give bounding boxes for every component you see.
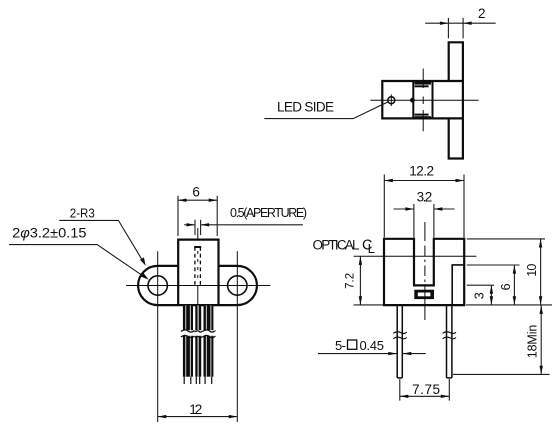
right mounting hole <box>228 276 247 295</box>
flange (mounting tab) outline <box>449 42 463 158</box>
LED SIDE leader line <box>264 102 388 119</box>
aperture slit start blob <box>194 246 201 248</box>
bottom extension line left <box>354 304 383 306</box>
pin highlights (white stripes) <box>185 305 211 376</box>
center pin bar <box>195 305 201 376</box>
2-phi3.2 leader <box>9 245 145 278</box>
svg-text:12: 12 <box>189 402 202 417</box>
svg-text:2: 2 <box>478 6 486 21</box>
svg-text:OPTICAL: OPTICAL <box>313 238 360 253</box>
right pin break marks <box>443 332 456 339</box>
svg-text:3: 3 <box>473 292 487 299</box>
body with mounting ears (stadium outline) <box>138 266 257 305</box>
svg-text:5-: 5- <box>335 338 346 353</box>
dimension 18Min <box>540 305 542 374</box>
dimension 6 <box>513 265 515 305</box>
top aperture hatch <box>415 82 431 87</box>
optical axis line <box>354 255 477 257</box>
horizontal centerline <box>371 99 479 101</box>
hole vertical tick <box>390 94 392 106</box>
break marks right pin <box>203 330 216 338</box>
dimension 10 <box>540 239 542 305</box>
svg-text:2-R3: 2-R3 <box>70 205 95 220</box>
dimension 3 <box>490 285 492 304</box>
left pin bar <box>183 305 193 376</box>
break band <box>181 330 216 336</box>
break marks center pin <box>195 331 203 338</box>
aperture block in slot <box>414 290 434 299</box>
dimension 0.5 aperture <box>184 220 303 235</box>
dimension 6 (tower width) <box>178 196 217 236</box>
svg-text:LED SIDE: LED SIDE <box>277 99 334 114</box>
dimension 5-sq0.45 leader arrows <box>318 353 426 355</box>
dimension 3.2 (slot width) <box>394 204 455 238</box>
dimension 12.2 <box>384 175 464 238</box>
svg-text:0.5(APERTURE): 0.5(APERTURE) <box>230 206 307 220</box>
2-R3 leader <box>59 220 143 262</box>
center block (sensing head) <box>413 81 432 118</box>
dimension 7.2 <box>359 256 361 304</box>
svg-text:L: L <box>368 241 375 256</box>
left pin <box>397 305 402 378</box>
pin tips <box>184 377 212 384</box>
step ledge <box>452 265 464 305</box>
svg-text:6: 6 <box>192 185 200 200</box>
index hole circle <box>388 97 395 104</box>
dimension 2 (flange thickness) <box>425 18 496 39</box>
svg-text:0.45: 0.45 <box>360 338 385 353</box>
aperture slit hidden lines <box>194 247 196 285</box>
left hole centerline / ext line <box>157 251 159 422</box>
dimension 12 <box>158 416 238 418</box>
svg-text:18Min: 18Min <box>526 325 540 359</box>
right extension lines <box>453 239 552 375</box>
front pins group <box>181 305 216 384</box>
LED chip dot <box>410 98 415 103</box>
svg-text:10: 10 <box>525 264 539 277</box>
center vertical line <box>197 228 199 305</box>
right pin bar <box>204 305 214 376</box>
bottom aperture hatch <box>415 114 431 119</box>
left mounting hole <box>148 276 167 295</box>
body outline <box>382 81 463 118</box>
svg-text:12.2: 12.2 <box>409 163 434 178</box>
vertical centerline <box>422 69 424 132</box>
svg-text:3.2: 3.2 <box>417 189 433 204</box>
right hole centerline / ext line <box>236 251 238 422</box>
sensing tower <box>178 240 218 306</box>
horizontal centerline <box>126 285 270 287</box>
dimension 7.75 <box>400 379 450 401</box>
svg-text:7.2: 7.2 <box>344 273 356 289</box>
body outline with slot <box>384 239 464 305</box>
vertical centerline <box>424 222 426 320</box>
right pin <box>447 305 452 378</box>
svg-text:6: 6 <box>499 283 513 290</box>
break marks left pin <box>181 330 195 338</box>
left pin break marks <box>393 332 406 339</box>
svg-text:2φ3.2±0.15: 2φ3.2±0.15 <box>12 225 86 240</box>
svg-text:7.75: 7.75 <box>412 382 440 397</box>
